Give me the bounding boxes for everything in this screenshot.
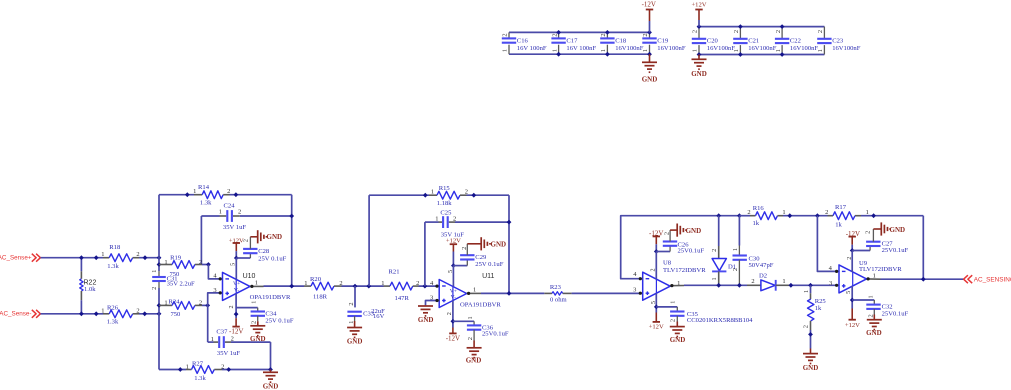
svg-text:1: 1 xyxy=(782,209,785,216)
svg-text:1: 1 xyxy=(186,363,189,370)
wire C37 line right xyxy=(231,341,271,343)
junction xyxy=(234,312,239,317)
junction xyxy=(185,192,190,197)
svg-text:1: 1 xyxy=(711,277,718,280)
wire U11 pin 2 down xyxy=(452,301,454,328)
svg-text:1: 1 xyxy=(164,299,167,306)
wire R21 to U11 pin 4 xyxy=(419,285,437,287)
ground GND below C33 xyxy=(347,321,362,337)
svg-text:25V0.1uF: 25V0.1uF xyxy=(482,331,509,338)
svg-text:2: 2 xyxy=(817,30,824,33)
junction xyxy=(697,24,702,29)
wire R14 top feedback line xyxy=(159,194,194,196)
svg-text:2: 2 xyxy=(825,209,828,216)
junction xyxy=(423,284,428,289)
svg-text:GND: GND xyxy=(866,329,882,337)
svg-text:C32: C32 xyxy=(882,304,893,311)
capacitor C36 xyxy=(467,316,481,340)
junction xyxy=(507,291,512,296)
svg-text:1: 1 xyxy=(219,209,222,216)
svg-text:1: 1 xyxy=(304,280,307,287)
junction xyxy=(507,220,512,225)
junction xyxy=(737,283,742,288)
power port -12V (top bank) xyxy=(642,0,656,21)
wire output to R23 xyxy=(481,292,544,294)
svg-text:GND: GND xyxy=(670,336,686,344)
svg-text:16V 100nF: 16V 100nF xyxy=(517,45,547,52)
svg-text:1: 1 xyxy=(101,251,104,258)
svg-text:C34: C34 xyxy=(265,310,277,317)
svg-text:1: 1 xyxy=(600,49,607,52)
svg-text:2: 2 xyxy=(803,325,810,328)
svg-text:1: 1 xyxy=(193,188,196,195)
wire R15 feedback line xyxy=(369,194,429,196)
svg-text:1: 1 xyxy=(732,248,739,251)
junction xyxy=(353,284,358,289)
wire D2 to U9 pin 3 xyxy=(790,284,836,286)
wire R20 to R21 xyxy=(342,285,384,287)
svg-text:U11: U11 xyxy=(482,273,494,280)
junction xyxy=(780,24,785,29)
wire top line C30 to R16 xyxy=(739,215,750,217)
capacitor C27 xyxy=(865,229,881,251)
junction xyxy=(205,303,210,308)
junction xyxy=(451,319,456,324)
junction xyxy=(850,248,855,253)
wire GND rail bottom of C20-C23 bank xyxy=(699,54,824,56)
wire output to AC_SENSING xyxy=(881,278,964,280)
svg-text:2: 2 xyxy=(199,259,202,266)
svg-text:2: 2 xyxy=(692,30,699,33)
svg-text:GND: GND xyxy=(491,240,507,248)
ground GND below C36 xyxy=(467,341,482,358)
wire U11 pin 3 to GND xyxy=(426,301,437,306)
power port -12V at U10 xyxy=(229,318,243,335)
resistor R27 xyxy=(159,363,224,373)
wire node to C29 xyxy=(453,265,467,267)
wire C37 left leg xyxy=(207,305,209,342)
svg-text:C25: C25 xyxy=(440,209,452,216)
ground GND sideways at C29 xyxy=(467,237,490,250)
svg-text:1: 1 xyxy=(251,301,258,304)
svg-text:V-: V- xyxy=(234,287,240,293)
wire +12V to rail xyxy=(698,20,700,27)
wire R26 to bus xyxy=(139,313,159,315)
svg-text:R24: R24 xyxy=(169,299,181,306)
ground GND below C34 xyxy=(250,321,265,336)
svg-text:1: 1 xyxy=(867,295,874,298)
junction xyxy=(94,311,99,316)
resistor R23 xyxy=(544,292,571,295)
svg-text:25V0.1uF: 25V0.1uF xyxy=(882,311,909,318)
svg-text:2: 2 xyxy=(551,33,558,36)
svg-text:16V100nF: 16V100nF xyxy=(832,45,861,52)
svg-text:1: 1 xyxy=(151,270,158,273)
svg-text:1: 1 xyxy=(435,216,438,223)
svg-text:50V47pF: 50V47pF xyxy=(749,262,774,269)
wire C25 to right leg xyxy=(455,221,509,223)
svg-text:+12V: +12V xyxy=(845,322,860,329)
svg-text:AC_Sense-: AC_Sense- xyxy=(0,311,32,318)
svg-text:1: 1 xyxy=(866,209,869,216)
svg-text:C16: C16 xyxy=(517,38,529,45)
svg-text:2: 2 xyxy=(151,287,158,290)
svg-text:AC_SENSING: AC_SENSING xyxy=(974,277,1011,284)
svg-text:2: 2 xyxy=(711,249,718,252)
capacitor C19 xyxy=(642,32,657,54)
junction xyxy=(226,367,231,372)
resistor R24 xyxy=(159,299,202,309)
svg-text:1k: 1k xyxy=(753,220,760,227)
svg-text:25V 0.1uF: 25V 0.1uF xyxy=(475,261,503,268)
svg-text:R14: R14 xyxy=(198,184,210,191)
capacitor C37 xyxy=(211,336,234,348)
wire pin2 node to C36 xyxy=(453,320,474,322)
capacitor C23 xyxy=(817,27,832,55)
ground GND at stage1 bottom xyxy=(263,370,278,383)
svg-text:1: 1 xyxy=(803,290,810,293)
svg-text:3: 3 xyxy=(633,286,636,293)
svg-text:3: 3 xyxy=(213,287,216,294)
capacitor C33 xyxy=(347,286,361,324)
wire U10 output xyxy=(250,285,263,287)
svg-text:16V 100nF: 16V 100nF xyxy=(566,45,596,52)
wire output to R20 xyxy=(264,285,305,287)
ground GND below C35 xyxy=(670,322,685,337)
resistor R22 xyxy=(80,258,83,314)
power port +12V at U9 xyxy=(845,309,860,330)
svg-text:GND: GND xyxy=(890,226,906,234)
junction xyxy=(206,262,211,267)
diode D1 xyxy=(711,216,726,286)
svg-text:1.18k: 1.18k xyxy=(437,200,453,207)
resistor R15 xyxy=(429,189,468,200)
svg-text:AC_Sense+: AC_Sense+ xyxy=(0,255,32,262)
wire U8 output xyxy=(670,285,684,287)
junction at C19 top xyxy=(647,30,652,35)
svg-text:C28: C28 xyxy=(258,248,270,255)
wire pin2 node to C34 xyxy=(236,307,258,309)
junction at C19 bottom xyxy=(647,52,652,57)
wire U8 pin 5 down xyxy=(655,293,657,312)
capacitor C20 xyxy=(692,27,707,55)
svg-text:1: 1 xyxy=(467,316,474,319)
svg-text:2: 2 xyxy=(467,337,474,340)
svg-text:2: 2 xyxy=(600,33,607,36)
junction xyxy=(787,213,792,218)
junction xyxy=(716,213,721,218)
svg-text:GND: GND xyxy=(686,227,702,235)
diode D2 xyxy=(747,278,790,291)
wire C24 line left part xyxy=(201,215,219,217)
svg-text:2: 2 xyxy=(669,319,676,322)
ground GND sideways at C27 xyxy=(873,222,890,235)
junction xyxy=(268,367,273,372)
svg-text:118R: 118R xyxy=(313,294,328,301)
port AC_SENSING xyxy=(964,275,1011,283)
junction xyxy=(366,284,371,289)
junction xyxy=(738,24,743,29)
wire output line to D2 xyxy=(684,284,747,286)
wire GND rail bottom of C16-C19 bank xyxy=(509,53,650,55)
svg-text:+12V: +12V xyxy=(691,1,706,8)
svg-text:1: 1 xyxy=(733,49,740,52)
svg-text:R20: R20 xyxy=(310,276,322,283)
wire R27 to GND corner xyxy=(222,369,271,371)
svg-text:C23: C23 xyxy=(832,38,844,45)
resistor R20 xyxy=(304,280,343,290)
power port -12V at U8 xyxy=(649,230,663,245)
capacitor C17 xyxy=(551,32,566,54)
wire U9 pin 4 leg xyxy=(817,216,836,272)
wire node to C27 xyxy=(852,250,870,252)
wire C24 line right part xyxy=(240,215,292,217)
wire bus lower segment xyxy=(158,282,160,288)
capacitor C30 xyxy=(732,216,747,286)
power port +12V at U10 xyxy=(229,238,244,251)
svg-text:GND: GND xyxy=(691,70,707,78)
wire -12V rail top of C16-C19 bank xyxy=(509,31,650,33)
power port +12V (top bank) xyxy=(691,1,706,20)
capacitor C21 xyxy=(733,27,748,55)
svg-text:2: 2 xyxy=(867,314,874,317)
port AC_Sense- xyxy=(0,310,40,318)
svg-text:1: 1 xyxy=(211,336,214,343)
wire R17 to right corner xyxy=(861,215,923,217)
svg-text:1: 1 xyxy=(101,307,104,314)
svg-text:3: 3 xyxy=(829,280,832,287)
svg-text:GND: GND xyxy=(347,338,363,346)
wire R24 out to corner xyxy=(202,304,208,306)
svg-text:25V 0.1uF: 25V 0.1uF xyxy=(258,256,286,263)
svg-text:750: 750 xyxy=(170,311,181,318)
wire node to C28 xyxy=(236,257,250,259)
svg-text:2: 2 xyxy=(251,321,258,324)
svg-text:147R: 147R xyxy=(395,295,410,302)
wire R15 to right leg xyxy=(467,194,510,196)
wire bus upper segment xyxy=(158,195,160,271)
junction xyxy=(921,277,926,282)
svg-text:1k: 1k xyxy=(835,222,842,229)
svg-text:2: 2 xyxy=(732,268,739,271)
junction xyxy=(79,311,84,316)
svg-text:V+: V+ xyxy=(450,288,457,294)
svg-text:C19: C19 xyxy=(657,38,669,45)
svg-text:-12V: -12V xyxy=(229,328,243,336)
capacitor C31 xyxy=(151,270,166,290)
resistor R26 xyxy=(101,307,139,317)
U9 pin 3 lead xyxy=(836,284,839,286)
wire U8 pin 4 loop xyxy=(621,216,719,279)
ground GND sideways at C28 xyxy=(250,230,266,243)
svg-text:2: 2 xyxy=(642,33,649,36)
wire C37 right leg down xyxy=(270,342,272,369)
junction xyxy=(234,192,239,197)
wire -12V to rail xyxy=(649,21,651,32)
op-amp U9 xyxy=(829,257,876,294)
wire U9 pin 5 down xyxy=(851,286,853,309)
svg-text:1.3k: 1.3k xyxy=(107,263,119,270)
svg-text:25V0.1uF: 25V0.1uF xyxy=(678,248,705,255)
svg-text:R25: R25 xyxy=(815,298,827,305)
junction xyxy=(654,249,659,254)
svg-text:2: 2 xyxy=(747,209,750,216)
wire AC_Sense- to R26 xyxy=(41,313,104,315)
wire R15 left leg xyxy=(368,195,370,286)
resistor R19 xyxy=(159,259,202,268)
svg-text:R18: R18 xyxy=(109,244,121,251)
wire R19 out to corner xyxy=(202,264,208,266)
svg-text:C18: C18 xyxy=(615,38,627,45)
junction xyxy=(850,298,855,303)
svg-text:16V100nF: 16V100nF xyxy=(615,45,644,52)
svg-text:GND: GND xyxy=(250,335,266,343)
svg-text:1.0k: 1.0k xyxy=(84,286,96,293)
wire U10 pin 2 down xyxy=(235,293,237,318)
ground GND below C19 xyxy=(642,54,657,72)
wire U11 output xyxy=(467,292,481,294)
junction xyxy=(737,213,742,218)
wire +12V rail top of C20-C23 bank xyxy=(699,26,824,28)
op-amp U11 xyxy=(430,270,476,315)
junction xyxy=(808,283,813,288)
svg-text:U8: U8 xyxy=(663,260,672,267)
capacitor C34 xyxy=(251,301,265,324)
svg-text:R16: R16 xyxy=(753,205,765,212)
wire C37 line left xyxy=(208,341,214,343)
wire stage2 right leg xyxy=(508,195,510,293)
U10 pin 3 lead xyxy=(220,292,223,294)
capacitor C35 xyxy=(669,301,684,322)
wire top line D1 to C30 xyxy=(719,215,740,217)
capacitor C24 xyxy=(219,209,241,222)
svg-text:V-: V- xyxy=(451,295,457,301)
svg-text:D2: D2 xyxy=(759,272,767,279)
svg-text:25V0.1uF: 25V0.1uF xyxy=(882,247,909,254)
junction xyxy=(143,255,148,260)
svg-text:2: 2 xyxy=(238,209,241,216)
wire stage3 right leg xyxy=(922,216,924,280)
wire U10 pin 5 xyxy=(235,258,237,279)
svg-text:-12V: -12V xyxy=(446,335,460,343)
junction xyxy=(471,193,476,198)
wire R25 to GND xyxy=(810,330,812,349)
svg-text:C21: C21 xyxy=(748,38,759,45)
U11 pin 4 lead xyxy=(437,285,440,287)
svg-text:16V100nF: 16V100nF xyxy=(657,45,686,52)
svg-text:U10: U10 xyxy=(243,273,256,280)
junction xyxy=(178,367,183,372)
wire node to C26 xyxy=(656,251,670,253)
port AC_Sense+ xyxy=(0,254,40,262)
junction xyxy=(157,303,162,308)
junction xyxy=(94,255,99,260)
junction xyxy=(157,262,162,267)
resistor R14 xyxy=(193,188,230,198)
svg-text:2: 2 xyxy=(242,239,249,242)
power port -12V at U11 xyxy=(446,328,460,343)
svg-text:C20: C20 xyxy=(707,38,719,45)
svg-text:1: 1 xyxy=(502,49,509,52)
junction xyxy=(654,305,659,310)
svg-text:-12V: -12V xyxy=(642,0,656,8)
resistor R25 xyxy=(803,285,814,330)
wire R18 to bus xyxy=(139,257,159,259)
capacitor C28 xyxy=(242,237,257,258)
junction xyxy=(234,256,239,261)
wire C25 line xyxy=(425,221,439,223)
power port +12V at U8 xyxy=(649,313,664,331)
svg-text:R23: R23 xyxy=(550,284,562,291)
svg-text:1: 1 xyxy=(164,259,167,266)
junction xyxy=(605,30,610,35)
svg-text:R26: R26 xyxy=(107,304,119,311)
junction xyxy=(815,213,820,218)
svg-text:GND: GND xyxy=(803,364,819,372)
svg-text:1: 1 xyxy=(642,49,649,52)
svg-text:1: 1 xyxy=(255,280,258,287)
svg-text:750: 750 xyxy=(169,271,180,278)
wire C24 left leg down xyxy=(200,216,202,265)
svg-text:OPA191DBVR: OPA191DBVR xyxy=(250,294,291,301)
junction xyxy=(157,255,162,260)
svg-text:1: 1 xyxy=(381,280,384,287)
power port -12V at U9 xyxy=(846,230,860,245)
capacitor C29 xyxy=(460,244,474,266)
resistor R21 xyxy=(381,280,419,290)
junction xyxy=(289,284,294,289)
svg-text:R21: R21 xyxy=(389,269,400,276)
wire pin5 node to C32 xyxy=(852,299,874,301)
capacitor C32 xyxy=(866,295,880,317)
junction xyxy=(423,193,428,198)
svg-text:2: 2 xyxy=(502,33,509,36)
junction xyxy=(716,283,721,288)
resistor R16 xyxy=(747,209,785,220)
svg-text:1: 1 xyxy=(551,49,558,52)
ground GND sideways at C26 xyxy=(670,224,686,237)
svg-text:C29: C29 xyxy=(475,254,487,261)
wire jog up to U10 pin 3 xyxy=(208,293,220,306)
svg-text:GND: GND xyxy=(418,316,434,324)
wire R23 to U8 pin 3 xyxy=(572,292,640,294)
svg-text:1: 1 xyxy=(782,278,785,285)
capacitor C18 xyxy=(600,32,615,54)
svg-text:1: 1 xyxy=(817,49,824,52)
svg-text:2: 2 xyxy=(199,299,202,306)
svg-text:25V 0.1uF: 25V 0.1uF xyxy=(265,318,293,325)
capacitor C22 xyxy=(775,27,790,55)
junction xyxy=(871,213,876,218)
svg-text:1: 1 xyxy=(669,301,676,304)
junction xyxy=(451,263,456,268)
capacitor C26 xyxy=(663,230,677,251)
ground GND below R25 xyxy=(803,349,818,364)
U10 pin 4 lead xyxy=(220,278,223,280)
svg-text:V+: V+ xyxy=(233,281,240,287)
capacitor C16 xyxy=(502,32,517,54)
junction xyxy=(808,332,813,337)
svg-text:16V100nF: 16V100nF xyxy=(748,45,777,52)
svg-text:GND: GND xyxy=(263,383,279,390)
wire +12V to U10 pin5 node xyxy=(235,251,237,258)
svg-text:2: 2 xyxy=(461,247,468,250)
svg-text:35V 2.2uF: 35V 2.2uF xyxy=(167,281,195,288)
svg-text:1: 1 xyxy=(431,189,434,196)
junction xyxy=(556,30,561,35)
svg-text:16V100nF: 16V100nF xyxy=(790,45,819,52)
svg-text:TLV172IDBVR: TLV172IDBVR xyxy=(663,267,706,274)
